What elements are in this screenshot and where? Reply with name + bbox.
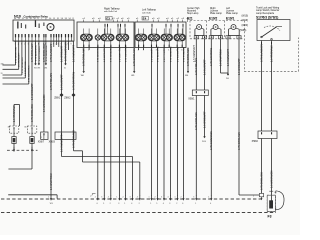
svg-text:2: 2 bbox=[176, 203, 177, 205]
svg-text:1: 1 bbox=[212, 37, 213, 39]
svg-text:Trunk Lock and Wiring: Trunk Lock and Wiring bbox=[256, 7, 280, 10]
svg-text:1.5 GR/SW/RT: 1.5 GR/SW/RT bbox=[60, 45, 63, 62]
svg-text:3: 3 bbox=[101, 197, 102, 199]
svg-text:1: 1 bbox=[48, 197, 49, 199]
svg-text:W4: W4 bbox=[226, 78, 229, 80]
svg-text:(W10): (W10) bbox=[242, 14, 249, 17]
svg-text:2: 2 bbox=[205, 37, 206, 39]
svg-text:W3: W3 bbox=[37, 68, 40, 70]
svg-text:Lamp Switch, Detector: Lamp Switch, Detector bbox=[256, 9, 280, 12]
svg-text:1.5 BL/GN/RT: 1.5 BL/GN/RT bbox=[203, 59, 206, 75]
svg-text:5: 5 bbox=[156, 203, 157, 205]
svg-text:0.75 GN/BL/SW: 0.75 GN/BL/SW bbox=[46, 45, 48, 61]
svg-text:6: 6 bbox=[182, 203, 183, 205]
svg-text:1.5 GN/RT/SW: 1.5 GN/RT/SW bbox=[219, 49, 222, 66]
svg-text:2: 2 bbox=[181, 197, 182, 199]
svg-text:2: 2 bbox=[221, 37, 222, 39]
svg-text:0.75 GN/BL/SW: 0.75 GN/BL/SW bbox=[43, 44, 46, 62]
svg-text:0.75 GR/RT/SW: 0.75 GR/RT/SW bbox=[98, 45, 100, 62]
svg-text:1.5 BL/GN/RT: 1.5 BL/GN/RT bbox=[60, 74, 63, 90]
svg-text:2: 2 bbox=[110, 203, 111, 205]
svg-text:0.75 RT/BL/GN: 0.75 RT/BL/GN bbox=[183, 47, 185, 62]
svg-text:1.5 GN/RT/SW: 1.5 GN/RT/SW bbox=[50, 173, 53, 190]
svg-text:1.5 GR/SW/RT: 1.5 GR/SW/RT bbox=[151, 47, 153, 62]
svg-text:1: 1 bbox=[150, 203, 151, 205]
svg-text:0.75 GR/RT/SW: 0.75 GR/RT/SW bbox=[15, 46, 17, 63]
svg-text:0.75 GR/BL/WS: 0.75 GR/BL/WS bbox=[133, 48, 136, 66]
svg-text:54: 54 bbox=[69, 18, 71, 20]
svg-text:F3: F3 bbox=[268, 215, 272, 219]
svg-text:with Bulb: with Bulb bbox=[142, 11, 152, 14]
svg-text:1.5 SW/WS/RT: 1.5 SW/WS/RT bbox=[227, 49, 230, 66]
svg-text:1.5 RT/GN/WS: 1.5 RT/GN/WS bbox=[39, 46, 41, 61]
svg-text:1.5 SW/WS/RT: 1.5 SW/WS/RT bbox=[72, 45, 75, 62]
svg-text:31: 31 bbox=[57, 18, 59, 20]
svg-text:1: 1 bbox=[116, 197, 117, 199]
svg-text:1: 1 bbox=[168, 50, 169, 52]
svg-text:15: 15 bbox=[18, 18, 20, 20]
svg-text:1.5 GR/SW/RT: 1.5 GR/SW/RT bbox=[203, 111, 206, 128]
svg-text:Right: Right bbox=[210, 7, 216, 10]
svg-text:(W19): (W19) bbox=[242, 19, 249, 22]
svg-text:54: 54 bbox=[34, 18, 36, 20]
svg-text:0.75 GR/BL/WS: 0.75 GR/BL/WS bbox=[238, 132, 241, 150]
svg-text:31: 31 bbox=[64, 68, 66, 70]
svg-text:1: 1 bbox=[175, 197, 176, 199]
svg-text:0.75 BL/WS/GN: 0.75 BL/WS/GN bbox=[50, 44, 53, 62]
svg-text:(W66): (W66) bbox=[240, 29, 247, 32]
svg-text:with Bulb Fail: with Bulb Fail bbox=[104, 10, 118, 13]
svg-text:1.5 SW/WS/RT: 1.5 SW/WS/RT bbox=[104, 47, 106, 62]
svg-text:2: 2 bbox=[123, 197, 124, 199]
svg-text:W4: W4 bbox=[44, 68, 47, 70]
svg-text:2: 2 bbox=[155, 197, 156, 199]
svg-text:Left: Left bbox=[226, 7, 230, 10]
svg-text:5: 5 bbox=[253, 195, 254, 197]
svg-text:3: 3 bbox=[169, 203, 170, 205]
svg-text:56: 56 bbox=[61, 18, 63, 20]
svg-text:5: 5 bbox=[103, 203, 104, 205]
svg-text:3: 3 bbox=[130, 197, 131, 199]
svg-text:4: 4 bbox=[208, 197, 209, 199]
svg-text:0.75 BL/WS/GN: 0.75 BL/WS/GN bbox=[35, 45, 37, 61]
svg-text:Z86/1: Z86/1 bbox=[54, 97, 61, 100]
svg-text:3: 3 bbox=[193, 197, 194, 199]
svg-text:Right Taillamp: Right Taillamp bbox=[104, 7, 120, 10]
svg-text:1: 1 bbox=[197, 37, 198, 39]
svg-text:4: 4 bbox=[210, 203, 211, 205]
svg-text:0.75 BL/WS/GN: 0.75 BL/WS/GN bbox=[260, 44, 263, 62]
svg-text:W10: W10 bbox=[202, 141, 206, 143]
svg-text:1.5 GN/RT/SW: 1.5 GN/RT/SW bbox=[25, 61, 27, 76]
svg-text:58: 58 bbox=[65, 18, 67, 20]
svg-text:31b: 31b bbox=[1, 63, 4, 65]
svg-text:1: 1 bbox=[229, 37, 230, 39]
svg-text:56: 56 bbox=[26, 18, 28, 20]
svg-text:6: 6 bbox=[97, 203, 98, 205]
svg-text:2: 2 bbox=[240, 37, 241, 39]
svg-text:0.75 SW/GN/WS: 0.75 SW/GN/WS bbox=[29, 65, 31, 82]
svg-text:Plate Lamp: Plate Lamp bbox=[226, 12, 238, 15]
svg-text:1.5 GN/RT/SW: 1.5 GN/RT/SW bbox=[119, 47, 121, 62]
svg-text:1.5 RT/GN/WS: 1.5 RT/GN/WS bbox=[270, 45, 273, 62]
svg-text:1: 1 bbox=[195, 203, 196, 205]
svg-text:0.75 GR/BL/WS: 0.75 GR/BL/WS bbox=[31, 44, 34, 62]
svg-text:1: 1 bbox=[124, 203, 125, 205]
svg-text:0.75 GN/BL/SW: 0.75 GN/BL/SW bbox=[170, 46, 172, 62]
svg-text:3: 3 bbox=[118, 203, 119, 205]
svg-text:3: 3 bbox=[181, 50, 182, 52]
svg-text:1.5 SW/WS/RT: 1.5 SW/WS/RT bbox=[60, 135, 63, 152]
svg-text:31: 31 bbox=[1, 73, 3, 75]
svg-text:1.5 RT/GN/WS: 1.5 RT/GN/WS bbox=[164, 47, 166, 62]
svg-text:3: 3 bbox=[161, 197, 162, 199]
svg-text:0.75 SW/GN/WS: 0.75 SW/GN/WS bbox=[125, 45, 127, 62]
svg-text:Z86/2: Z86/2 bbox=[64, 97, 71, 100]
svg-text:1: 1 bbox=[149, 197, 150, 199]
svg-text:0.75 RT/BL/GN: 0.75 RT/BL/GN bbox=[195, 58, 198, 75]
svg-text:30: 30 bbox=[14, 18, 16, 20]
svg-text:S17/6/3 (S78/1): S17/6/3 (S78/1) bbox=[256, 15, 278, 19]
svg-text:15: 15 bbox=[53, 18, 55, 20]
svg-text:0.75 GR/BL/WS: 0.75 GR/BL/WS bbox=[72, 130, 75, 148]
svg-text:0.75 GR/BL/WS: 0.75 GR/BL/WS bbox=[83, 48, 86, 66]
svg-text:Lamp Receptacle: Lamp Receptacle bbox=[256, 12, 275, 15]
svg-text:58: 58 bbox=[30, 18, 32, 20]
svg-text:(W20): (W20) bbox=[242, 24, 249, 27]
svg-text:Stop Lamp: Stop Lamp bbox=[187, 12, 199, 15]
svg-text:1: 1 bbox=[41, 137, 42, 139]
svg-text:2: 2 bbox=[95, 197, 96, 199]
svg-text:E21: E21 bbox=[187, 16, 193, 20]
svg-text:4: 4 bbox=[137, 197, 138, 199]
svg-text:0.75 GN/BL/SW: 0.75 GN/BL/SW bbox=[31, 104, 34, 122]
svg-text:1.5 GR/SW/RT: 1.5 GR/SW/RT bbox=[238, 58, 241, 75]
svg-text:4: 4 bbox=[131, 203, 132, 205]
svg-text:1.5 GR/SW/RT: 1.5 GR/SW/RT bbox=[31, 83, 34, 100]
svg-text:0.75 GR/BL/WS: 0.75 GR/BL/WS bbox=[22, 57, 24, 73]
svg-text:0.75 GR/BL/WS: 0.75 GR/BL/WS bbox=[195, 112, 198, 130]
svg-text:Mounted: Mounted bbox=[187, 9, 197, 12]
svg-text:1.5 WS/SW/GN: 1.5 WS/SW/GN bbox=[43, 94, 46, 112]
svg-text:Left Taillamp: Left Taillamp bbox=[142, 9, 157, 12]
svg-text:0.75 GR/BL/WS: 0.75 GR/BL/WS bbox=[111, 46, 113, 62]
svg-text:Plate Lamp: Plate Lamp bbox=[210, 12, 222, 15]
svg-text:1.5 WS/SW/GN: 1.5 WS/SW/GN bbox=[177, 46, 179, 62]
svg-text:1.5 SW/WS/RT: 1.5 SW/WS/RT bbox=[19, 52, 21, 67]
svg-text:1.5 RT/GN/WS: 1.5 RT/GN/WS bbox=[13, 105, 16, 122]
svg-text:0.75 RT/BL/GN: 0.75 RT/BL/GN bbox=[50, 73, 53, 90]
svg-text:30: 30 bbox=[49, 18, 51, 20]
svg-text:0.75 GR/BL/WS: 0.75 GR/BL/WS bbox=[187, 48, 190, 66]
svg-text:X58/1: X58/1 bbox=[188, 98, 195, 101]
svg-text:2: 2 bbox=[139, 203, 140, 205]
svg-text:0.75 GR/RT/SW: 0.75 GR/RT/SW bbox=[210, 47, 213, 66]
svg-text:E19/2: E19/2 bbox=[209, 16, 218, 20]
svg-text:4: 4 bbox=[163, 203, 164, 205]
svg-text:0.75 BL/WS/GN: 0.75 BL/WS/GN bbox=[157, 46, 159, 62]
svg-text:X56/3: X56/3 bbox=[49, 141, 56, 144]
svg-text:X58/2: X58/2 bbox=[252, 140, 259, 143]
svg-text:Center High: Center High bbox=[187, 7, 200, 10]
svg-text:31: 31 bbox=[22, 18, 24, 20]
svg-text:0.75 GR/RT/SW: 0.75 GR/RT/SW bbox=[72, 71, 75, 90]
svg-text:4: 4 bbox=[108, 197, 109, 199]
svg-text:E19/1: E19/1 bbox=[226, 16, 235, 20]
svg-text:0.75 SW/GN/WS: 0.75 SW/GN/WS bbox=[210, 131, 213, 150]
svg-text:4: 4 bbox=[168, 197, 169, 199]
svg-text:W3: W3 bbox=[50, 203, 53, 205]
svg-text:X56/7: X56/7 bbox=[38, 141, 45, 144]
